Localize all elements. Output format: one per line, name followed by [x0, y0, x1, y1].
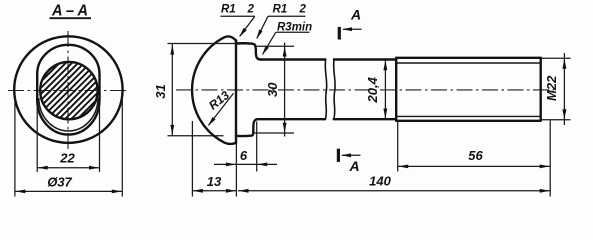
dimension 6: [214, 148, 277, 166]
svg-text:31: 31: [153, 84, 168, 98]
dimension M22: [544, 53, 566, 125]
bolt head base line: [235, 40, 237, 143]
shank section circle outline: [40, 62, 97, 119]
dimension 6 extension lines: [236, 122, 256, 197]
thread minor diameter top (thin): [397, 62, 541, 64]
section plane mark A top: [339, 7, 361, 40]
svg-text:13: 13: [207, 174, 222, 189]
svg-text:R1: R1: [221, 4, 236, 16]
break line left: [325, 59, 327, 119]
svg-text:R1: R1: [273, 4, 288, 16]
oval neck outline (stadium): [37, 45, 99, 135]
dimension 56 extension lines: [398, 121, 551, 197]
section view vertical centerline: [67, 31, 69, 150]
shank top edge: [261, 58, 326, 60]
svg-text:56: 56: [468, 148, 483, 163]
dimension 13: [192, 174, 236, 193]
svg-text:M22: M22: [544, 75, 559, 101]
dimension 30: [265, 43, 287, 137]
head outline circle D37: [14, 36, 122, 143]
dimension 22: [37, 151, 99, 170]
break line right: [334, 59, 336, 119]
svg-text:140: 140: [369, 174, 391, 189]
shank bottom edge: [258, 118, 326, 120]
shank bottom edge after break: [334, 118, 397, 120]
svg-text:2: 2: [299, 4, 307, 16]
thread start line: [395, 58, 397, 121]
dimension 31 extension lines: [168, 44, 237, 136]
dimension 20,4: [365, 60, 388, 119]
svg-text:R3min: R3min: [277, 22, 312, 34]
leader R13 callout: [206, 88, 233, 126]
dimension 56: [398, 148, 551, 169]
leader R1 2 first callout: [220, 4, 254, 37]
svg-text:2: 2: [247, 4, 255, 16]
bolt axis centerline: [176, 89, 554, 91]
dimension 140: [238, 174, 550, 193]
thread minor diameter bottom (thin): [397, 115, 541, 117]
svg-text:22: 22: [59, 151, 75, 166]
svg-text:20,4: 20,4: [365, 76, 380, 103]
thread major diameter top: [396, 57, 541, 59]
svg-text:Ø37: Ø37: [47, 175, 72, 190]
thread major diameter bottom: [396, 120, 541, 122]
dimension D37: [15, 175, 122, 194]
shank top edge after break: [334, 58, 396, 60]
svg-text:A: A: [350, 7, 361, 23]
svg-text:A: A: [348, 158, 359, 174]
section view horizontal centerline: [8, 90, 129, 92]
neck top profile with fillets R1-R2-R3: [236, 43, 261, 59]
dimension 13 extension line: [191, 121, 193, 197]
svg-text:30: 30: [265, 82, 280, 97]
svg-text:A – A: A – A: [51, 3, 88, 20]
section title A-A: [50, 3, 92, 20]
bolt end face: [540, 58, 542, 121]
neck bottom profile with fillets: [236, 119, 258, 136]
dimension M22 extension lines: [541, 58, 571, 120]
dimension D37 extension lines: [15, 97, 122, 197]
leader R3min callout: [262, 22, 312, 56]
section plane mark A bottom: [338, 149, 360, 175]
dimension 22 extension lines: [37, 103, 99, 172]
bolt head dome profile R13: [192, 36, 236, 144]
svg-text:6: 6: [240, 148, 248, 163]
leader R1 2 second callout: [256, 4, 306, 40]
neck inner bottom arc: [39, 98, 98, 131]
dimension 31: [153, 44, 174, 135]
dimension 30 extension lines: [253, 46, 294, 133]
